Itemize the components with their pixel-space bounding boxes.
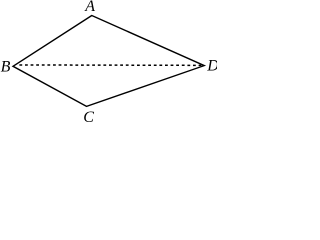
diagonal BD dashed: [19, 64, 204, 66]
svg-text:C: C: [83, 109, 94, 122]
svg-text:B: B: [1, 59, 11, 76]
svg-text:A: A: [84, 0, 95, 15]
quadrilateral ABCD outline (sides AB, BC, CD, DA): [13, 16, 204, 107]
svg-text:D: D: [206, 58, 217, 75]
